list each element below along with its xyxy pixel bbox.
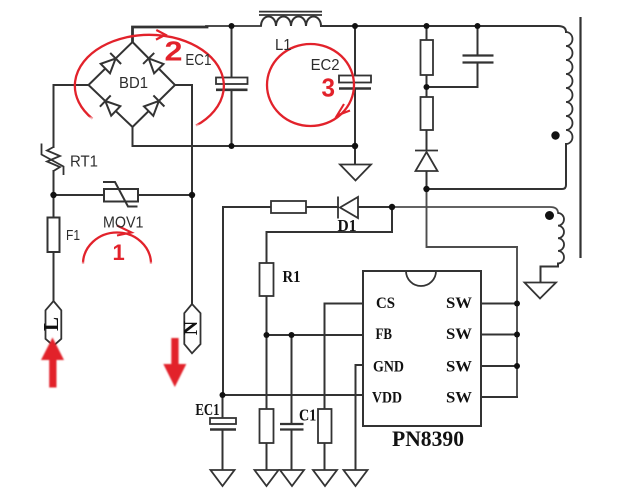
capacitor EC1 (bulk electrolytic) — [216, 78, 248, 90]
wire FB pin — [267, 334, 364, 336]
wire bridge bottom to ground rail — [133, 127, 356, 146]
wire EC1 bottom lead — [231, 91, 233, 146]
svg-text:SW: SW — [446, 295, 472, 312]
wire VDD rail — [223, 394, 364, 396]
svg-text:EC1: EC1 — [185, 52, 211, 69]
wire EC2 bottom lead — [354, 90, 356, 146]
arc tip fades — [79, 117, 200, 269]
wire EC2 top lead — [354, 26, 356, 76]
node EC2 top rail — [352, 23, 358, 29]
svg-text:L1: L1 — [275, 37, 292, 54]
svg-text:CS: CS — [376, 295, 395, 312]
svg-text:BD1: BD1 — [119, 75, 148, 92]
ground (EC3) — [211, 470, 235, 486]
svg-text:MOV1: MOV1 — [103, 215, 144, 232]
wire R2 to R3 junction — [426, 75, 428, 97]
node snubber C top rail — [475, 23, 481, 29]
svg-text:GND: GND — [373, 359, 404, 376]
wire R5 to ground — [266, 443, 268, 470]
svg-text:SW: SW — [446, 359, 472, 376]
svg-text:C1: C1 — [299, 406, 316, 425]
wire R3 to D2 — [426, 130, 428, 150]
wire node C to transformer secondary top — [392, 207, 558, 213]
svg-text:N: N — [180, 320, 202, 335]
svg-text:3: 3 — [322, 73, 336, 103]
node EC1 top rail — [229, 23, 235, 29]
bridge diode top-right — [143, 53, 163, 73]
bridge diode bottom-right — [144, 95, 164, 115]
transformer primary polarity dot — [551, 131, 559, 139]
svg-text:EC2: EC2 — [311, 57, 340, 74]
svg-text:2: 2 — [165, 36, 183, 67]
annotation loop 3 — [267, 44, 354, 126]
thermistor RT1 — [42, 144, 64, 176]
wire MOV1 left — [54, 194, 105, 196]
ground (R6) — [313, 470, 337, 486]
wire aux corner to horizontal resistor R4 — [223, 207, 271, 395]
wire rail to R2 top — [426, 26, 428, 40]
wire SW3 — [481, 365, 517, 367]
resistor R4 (startup, horizontal) — [271, 201, 306, 213]
terminal N — [184, 304, 200, 353]
bridge rectifier BD1 outline — [89, 42, 176, 127]
annotation loop 2 (differential mode loop) — [75, 30, 224, 126]
node EC2 bottom rail / ground — [352, 143, 358, 149]
wire RT1 to L node — [53, 171, 55, 218]
svg-text:SW: SW — [446, 326, 472, 343]
wire bridge left vertex to RT1 — [54, 85, 89, 147]
IC U1 PN8390 body — [363, 271, 481, 426]
svg-text:D1: D1 — [338, 216, 357, 235]
svg-text:EC1: EC1 — [195, 400, 219, 419]
svg-text:1: 1 — [113, 240, 125, 265]
wire R6 to ground — [324, 443, 326, 470]
diode D1 — [338, 197, 358, 219]
wire rail to C2 top — [477, 26, 479, 55]
node SW1 — [514, 301, 520, 307]
node FB-R1 — [264, 332, 270, 338]
wire SW1 — [481, 303, 517, 305]
svg-text:FB: FB — [376, 326, 393, 343]
wire SW4 — [481, 396, 517, 398]
wire top rail right (L1 to transformer primary) — [321, 26, 566, 32]
wire bridge right vertex down to N terminal — [175, 85, 192, 304]
wire R1 bottom to FB node — [266, 296, 268, 335]
node EC1 bottom rail — [229, 143, 235, 149]
wire SW bus vertical — [516, 247, 518, 397]
diode D2 (clamp) — [415, 151, 438, 172]
red arrow at L input — [41, 338, 64, 388]
resistor R3 (snubber bottom) — [421, 97, 434, 130]
svg-text:VDD: VDD — [372, 390, 402, 407]
svg-text:F1: F1 — [66, 227, 80, 244]
node snubber mid — [424, 84, 430, 90]
bridge diode bottom-left — [100, 95, 120, 115]
wire GND pin down to ground — [356, 365, 364, 470]
wire EC3 to ground — [222, 430, 224, 471]
node C (D1 output) — [389, 204, 395, 210]
svg-text:RT1: RT1 — [70, 154, 98, 171]
wire node C down and left to R1 — [267, 207, 393, 263]
resistor R1 — [260, 263, 274, 296]
transformer T1 core — [579, 17, 581, 258]
wire EC3 top lead — [222, 395, 224, 418]
node B (primary bottom) — [423, 186, 429, 192]
wire top rail left (bridge top, thick segment) — [133, 27, 208, 42]
wire MOV1 right — [138, 194, 192, 196]
red arrow at N input — [163, 338, 186, 387]
svg-text:L: L — [39, 317, 63, 331]
transformer T1 primary winding — [566, 32, 573, 144]
wire top rail left to L1 — [206, 25, 261, 27]
wire R4 to D1 cathode — [306, 206, 338, 208]
wire F1 to L terminal — [53, 252, 55, 301]
transformer secondary polarity dot — [545, 211, 554, 220]
svg-text:SW: SW — [446, 390, 472, 407]
node MOV1 left — [50, 192, 56, 198]
wire FB node down to R5 — [266, 335, 268, 409]
wire D2 anode to node B — [426, 169, 428, 189]
fuse F1 — [48, 218, 60, 253]
node SW2 — [514, 332, 520, 338]
varistor MOV1 — [103, 182, 138, 207]
wire C1 branch down — [291, 335, 293, 424]
capacitor C1 — [280, 424, 304, 430]
terminal L — [46, 301, 62, 346]
ground (secondary) — [525, 283, 557, 299]
wire node B down to SW bus — [427, 189, 518, 247]
ground (C1) — [280, 470, 304, 486]
wire C1 to ground — [291, 430, 293, 471]
svg-text:PN8390: PN8390 — [392, 426, 464, 451]
resistor R5 (FB lower) — [260, 409, 274, 443]
wire SW2 — [481, 334, 517, 336]
inductor L1 — [259, 12, 322, 26]
transformer T1 secondary winding — [558, 213, 564, 264]
capacitor EC3 (VDD electrolytic) — [210, 418, 236, 430]
svg-text:R1: R1 — [283, 267, 301, 286]
wire EC1 top lead — [231, 26, 233, 78]
resistor R2 (snubber top) — [421, 40, 434, 75]
node FB-C1 — [289, 332, 295, 338]
wire C2 bottom to R2/R3 junction — [427, 63, 478, 87]
wire CS pin to R6 — [325, 304, 364, 410]
ground (input rail) — [340, 165, 371, 181]
node VDD-EC3 — [220, 392, 226, 398]
node snubber R top rail — [424, 23, 430, 29]
node MOV1 right — [189, 192, 195, 198]
ground (R5) — [255, 470, 279, 486]
node SW3 — [514, 363, 520, 369]
bridge diode top-left — [101, 53, 121, 73]
capacitor C2 (snubber) — [463, 56, 494, 63]
wire ground rail to ground symbol — [354, 146, 356, 164]
capacitor EC2 — [339, 76, 371, 89]
wire D1 anode to node C — [358, 206, 392, 208]
wire transformer secondary bottom to ground — [541, 264, 559, 283]
resistor R6 (CS filter) — [318, 409, 332, 443]
wire node B to transformer primary bottom — [427, 144, 567, 189]
ground (GND pin) — [344, 470, 368, 486]
annotation arc 1 (MOV loop) — [83, 226, 151, 265]
